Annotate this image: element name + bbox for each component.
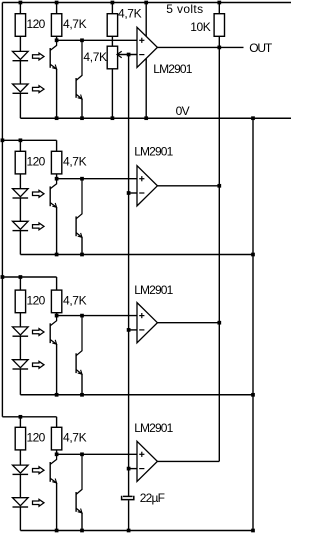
junction: Vref tap stage 2 (127, 191, 131, 195)
svg-text:4,7K: 4,7K (63, 293, 87, 307)
wire: Q22 emitter to 0V (81, 237, 83, 254)
svg-text:22µF: 22µF (140, 491, 165, 505)
svg-text:4,7K: 4,7K (83, 50, 107, 64)
phototransistor Q41 (50, 454, 56, 464)
wire: Q11 emitter to 0V (56, 69, 58, 118)
wire: left +5V vertical (1, 3, 3, 417)
junction: U1c output / OUT vertical (217, 321, 221, 325)
node Vref: wiper junction (127, 53, 131, 57)
svg-text:LM2901: LM2901 (134, 283, 173, 297)
light arrow from D41 (33, 467, 45, 474)
wire: D41 to D42 (19, 474, 21, 497)
0V rail stage 1 (wire) (20, 117, 291, 119)
wire: Vref vertical (128, 55, 130, 497)
wire: node c to + input (57, 315, 137, 317)
resistor R32 4,7K (51, 290, 61, 313)
wire: +5V to R11 (19, 3, 21, 14)
resistor R12 4,7K (51, 14, 61, 37)
node b: junction R22 / Q21 collector (55, 177, 59, 181)
wire: +5V to R31 (19, 277, 21, 290)
wire: R31 to LED D31 (19, 313, 21, 327)
wire: U1a output to OUT (157, 46, 243, 48)
wire: +5V to R41 (19, 417, 21, 428)
svg-text:4,7K: 4,7K (63, 431, 87, 445)
op-amp U1a LM2901 comparator (137, 27, 157, 67)
junction: Q22 collector tap (80, 177, 84, 181)
svg-text:4,7K: 4,7K (118, 6, 142, 20)
wire: D22 to 0V rail (19, 231, 21, 255)
junction: +5V to R12 (55, 1, 59, 5)
wire: node d to + input (57, 453, 137, 455)
wire: node b to + input (57, 178, 137, 180)
junction: Vref tap stage 3 (127, 328, 131, 332)
wire: U1 V+ pin (145, 3, 147, 37)
light arrow from D32 (33, 361, 45, 368)
wiper arrow of P1 (117, 51, 122, 58)
wire: Q12 emitter to 0V (81, 99, 83, 118)
junction: Q31 emitter / 0V rail (55, 393, 59, 397)
wire: P1 wiper to - input of U1a (117, 54, 137, 56)
phototransistor Q22 (76, 179, 82, 219)
resistor R22 4,7K (51, 151, 61, 174)
svg-text:120: 120 (27, 17, 46, 31)
wire: Q42 emitter to 0V (81, 513, 83, 531)
svg-text:10K: 10K (190, 20, 211, 34)
junction: +5V / U1 V+ pin (144, 1, 148, 5)
LED D31 (13, 327, 29, 335)
wire: R41 to LED D41 (19, 450, 21, 465)
wire: Q32 emitter to 0V (81, 374, 83, 395)
junction: Q32 collector tap (80, 314, 84, 318)
wire: +5V to R12 (56, 3, 58, 14)
phototransistor Q12 (76, 40, 82, 80)
junction: +5V to R4 (217, 1, 221, 5)
resistor R3 4,7K (reference divider top) (107, 14, 117, 37)
junction: Q22 emitter / 0V rail (80, 253, 84, 257)
junction: +5V to R11 (19, 1, 23, 5)
phototransistor Q11 (50, 40, 56, 50)
junction: left rail / stage 2 rail (1, 138, 5, 142)
junction: +5V to R41 (19, 415, 23, 419)
junction: Q12 emitter / 0V rail (80, 116, 84, 120)
wire: node a to P1 (111, 40, 113, 46)
wire: +5V to R3 (111, 3, 113, 14)
wire: R11 to LED D11 (19, 36, 21, 51)
svg-text:120: 120 (27, 155, 46, 169)
svg-text:5 volts: 5 volts (166, 2, 203, 16)
resistor R11 120 (15, 14, 25, 37)
phototransistor Q31 (50, 316, 56, 326)
op-amp U1d LM2901 comparator (137, 441, 157, 481)
junction: U1 GND pin / 0V rail (144, 116, 148, 120)
light arrow from D21 (33, 190, 45, 197)
op-amp U1b LM2901 comparator (137, 166, 157, 206)
wire: P1 to 0V (111, 69, 113, 118)
wire: R3 to node a (111, 36, 113, 40)
LED D21 (13, 189, 29, 197)
wire: R42 to node d (56, 450, 58, 454)
wire: Q31 emitter to 0V (56, 344, 58, 395)
junction: stage 2 0V rail / 0V vertical (251, 253, 255, 257)
wire: +5V to R4 (218, 3, 220, 14)
junction: +5V to R3 (111, 1, 115, 5)
svg-text:LM2901: LM2901 (134, 145, 173, 159)
svg-text:0V: 0V (176, 104, 190, 118)
junction: +5V to R31 (19, 275, 23, 279)
LED D32 (13, 360, 29, 368)
node d: junction R42 / Q41 collector (55, 452, 59, 456)
wire: +5V to R21 (19, 140, 21, 151)
wire: U1c output (157, 322, 219, 324)
0V rail stage 2 (wire) (20, 254, 253, 256)
junction: P1 bottom / 0V rail (111, 116, 115, 120)
wire: U1d output (157, 460, 219, 462)
junction: Q41 emitter / 0V rail (55, 529, 59, 533)
svg-text:LM2901: LM2901 (153, 62, 192, 76)
junction: stage 4 0V rail / 0V vertical (251, 529, 255, 533)
junction: Vref tap stage 4 (127, 467, 131, 471)
wire: Vref to - input of U1b (129, 192, 137, 194)
junction: Q12 collector tap (80, 38, 84, 42)
resistor R31 120 (15, 290, 25, 313)
LED D41 (13, 465, 29, 473)
light arrow from D42 (33, 499, 45, 506)
light arrow from D11 (33, 53, 45, 60)
wire: stage 4 +5V rail (2, 416, 56, 418)
junction: left rail / stage 3 rail (1, 275, 5, 279)
LED D22 (13, 221, 29, 229)
junction: Q32 emitter / 0V rail (80, 393, 84, 397)
svg-text:120: 120 (27, 431, 46, 445)
svg-text:120: 120 (27, 293, 46, 307)
wire: stage 2 +5V rail (2, 139, 56, 141)
wire: Q21 emitter to 0V (56, 207, 58, 254)
wire: C1 to 0V rail (128, 500, 130, 530)
node a: junction R12 / Q11 collector (55, 38, 59, 42)
junction: Q11 emitter / 0V rail (55, 116, 59, 120)
LED D11 (13, 51, 29, 59)
light arrow from D31 (33, 329, 45, 336)
wire: R22 to node b (56, 174, 58, 179)
op-amp U1c LM2901 comparator (137, 303, 157, 343)
junction: Q21 emitter / 0V rail (55, 253, 59, 257)
wire: OUT vertical bus (218, 47, 220, 461)
0V rail stage 4 (wire) (20, 530, 253, 532)
wire: D31 to D32 (19, 336, 21, 360)
phototransistor Q21 (50, 179, 56, 189)
wire: Vref to - input of U1c (129, 329, 137, 331)
LED D12 (13, 84, 29, 92)
node c: junction R32 / Q31 collector (55, 314, 59, 318)
wire: R12 to node a (56, 36, 58, 40)
LED D42 (13, 498, 29, 506)
wire: U1 GND pin (145, 58, 147, 118)
wire: R32 to node c (56, 313, 58, 316)
resistor R41 120 (15, 427, 25, 450)
light arrow from D22 (33, 223, 45, 230)
wire: D12 to 0V rail (19, 93, 21, 118)
junction: 10K / OUT vertical (217, 46, 221, 50)
wire: D42 to 0V rail (19, 507, 21, 531)
resistor R4 10K pull-up (214, 14, 224, 37)
svg-text:4,7K: 4,7K (63, 155, 87, 169)
0V rail stage 3 (wire) (20, 394, 253, 396)
wire: Vref to - input of U1d (129, 468, 137, 470)
wire: D21 to D22 (19, 198, 21, 221)
junction: +5V to R21 (19, 138, 23, 142)
wire: D32 to 0V rail (19, 369, 21, 395)
junction: stage 3 0V rail / 0V vertical (251, 393, 255, 397)
wire: +5V to R32 (56, 277, 58, 290)
phototransistor Q32 (76, 316, 82, 356)
phototransistor Q42 (76, 454, 82, 494)
wire: R4 to OUT line (218, 36, 220, 47)
junction: C1 / 0V rail (127, 529, 131, 533)
svg-text:LM2901: LM2901 (134, 421, 173, 435)
junction: stage 1 0V rail / 0V vertical (251, 116, 255, 120)
svg-text:4,7K: 4,7K (63, 17, 87, 31)
wire: 0V vertical bus (252, 118, 254, 530)
wire: Q41 emitter to 0V (56, 483, 58, 531)
capacitor C1 22µF (123, 495, 133, 497)
+5V top rail (wire) (2, 2, 291, 4)
potentiometer P1 4,7K (107, 46, 117, 69)
light arrow from D12 (33, 86, 45, 93)
resistor R21 120 (15, 151, 25, 174)
junction: U1b output / OUT vertical (217, 184, 221, 188)
junction: Q42 emitter / 0V rail (80, 529, 84, 533)
svg-text:OUT: OUT (249, 41, 273, 55)
wire: U1b output (157, 185, 219, 187)
junction: Q42 collector tap (80, 452, 84, 456)
wire: node a to + input (57, 39, 137, 41)
wire: stage 3 +5V rail (2, 276, 56, 278)
wire: +5V to R22 (56, 140, 58, 151)
wire: D11 to D12 (19, 61, 21, 84)
wire: +5V to R42 (56, 417, 58, 428)
resistor R42 4,7K (51, 427, 61, 450)
wire: R21 to LED D21 (19, 174, 21, 189)
